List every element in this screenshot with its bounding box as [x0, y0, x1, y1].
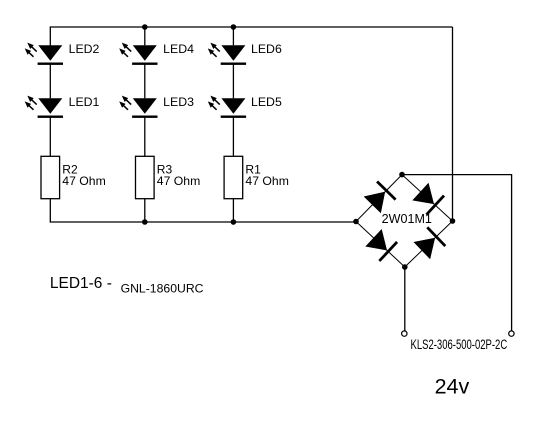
svg-text:47 Ohm: 47 Ohm — [157, 174, 201, 188]
node dot bottom rail col2 — [142, 219, 148, 225]
connector terminal left — [402, 331, 407, 336]
wire bridge top node to right connector — [402, 175, 512, 331]
bridge edge left-bottom — [356, 222, 405, 268]
LED D5 — [208, 96, 246, 118]
svg-text:LED2: LED2 — [69, 42, 100, 56]
diode bridge top-left — [363, 180, 397, 214]
diode bridge bottom-left — [365, 228, 398, 262]
node dot bottom rail col3 — [231, 219, 237, 225]
svg-text:KLS2-306-500-02P-2C: KLS2-306-500-02P-2C — [411, 337, 508, 352]
svg-text:LED6: LED6 — [251, 42, 282, 56]
wire LED5 to R1 — [232, 117, 234, 157]
diode bridge bottom-right — [413, 226, 447, 260]
node dot bridge bottom — [402, 264, 408, 270]
wire LED1 to R2 — [49, 117, 51, 157]
LED D1 — [25, 96, 63, 118]
svg-text:47 Ohm: 47 Ohm — [245, 174, 289, 188]
node dot top rail col3 — [231, 24, 237, 30]
bridge edge bottom-right — [405, 221, 453, 267]
wire top rail — [50, 27, 452, 46]
connector terminal right — [509, 331, 514, 336]
resistor R1 — [224, 156, 243, 198]
LED D2 — [25, 43, 63, 65]
svg-text:LED3: LED3 — [163, 95, 194, 109]
LED D4 — [119, 43, 157, 65]
resistor R2 — [41, 156, 60, 198]
svg-text:LED4: LED4 — [163, 42, 194, 56]
wire top rail down to bridge right node — [452, 27, 454, 221]
wire LED3 to R3 — [144, 117, 146, 157]
resistor R3 — [136, 156, 155, 198]
svg-text:LED5: LED5 — [251, 95, 282, 109]
svg-text:LED1-6 -: LED1-6 - — [50, 275, 112, 292]
wire LED6 to LED5 — [232, 64, 234, 99]
node dot top rail col2 — [142, 24, 148, 30]
bridge edge top-right — [402, 175, 453, 221]
svg-text:24v: 24v — [435, 374, 470, 398]
wire R2 to bottom rail — [50, 199, 356, 222]
LED D3 — [119, 96, 157, 118]
bridge edge left-top — [356, 175, 402, 222]
svg-text:GNL-1860URC: GNL-1860URC — [121, 281, 204, 295]
svg-text:47 Ohm: 47 Ohm — [62, 174, 106, 188]
wire R3 to bottom rail — [144, 199, 146, 222]
wire column3 top — [232, 27, 234, 45]
wire column2 top — [144, 27, 146, 45]
svg-text:LED1: LED1 — [69, 95, 100, 109]
wire LED2 to LED1 — [49, 64, 51, 99]
wire bridge bottom node to left connector — [404, 267, 406, 331]
wire R1 to bottom rail — [232, 199, 234, 222]
wire LED4 to LED3 — [144, 64, 146, 99]
diode bridge top-right — [412, 182, 445, 216]
svg-text:2W01M1: 2W01M1 — [382, 212, 432, 226]
LED D6 — [208, 43, 246, 65]
node dot bridge top — [399, 172, 405, 178]
node dot bridge right — [450, 218, 456, 224]
node dot bridge left — [353, 219, 359, 225]
